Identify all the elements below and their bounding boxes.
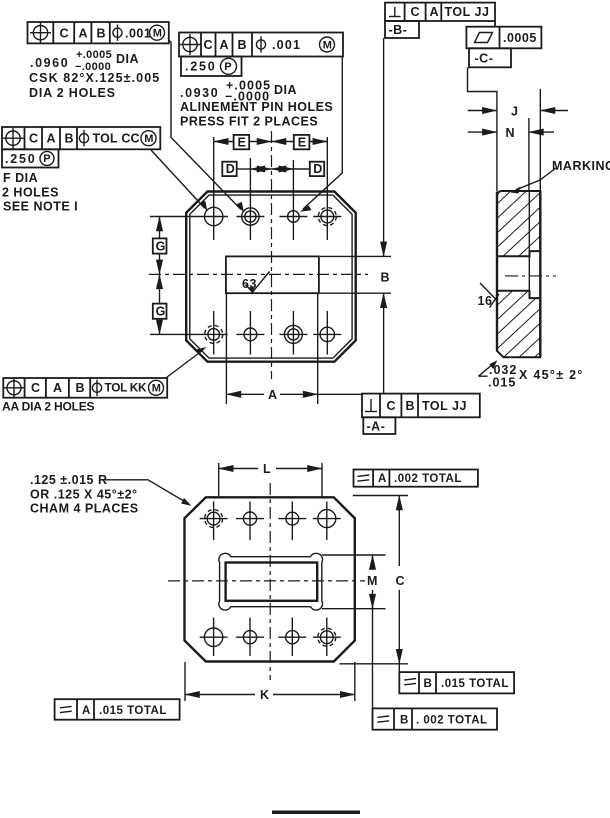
MARKING label and leader — [511, 159, 610, 194]
svg-text:.250: .250 — [185, 60, 217, 74]
svg-text:-B-: -B- — [389, 23, 408, 37]
svg-text:M: M — [367, 574, 378, 588]
svg-text:K: K — [260, 688, 270, 702]
svg-text:A: A — [53, 381, 63, 395]
svg-text:TOL JJ: TOL JJ — [445, 5, 490, 19]
svg-text:M: M — [144, 133, 154, 145]
svg-text:E: E — [238, 135, 247, 149]
view 2 aperture rectangle — [226, 563, 318, 601]
svg-text:.0930: .0930 — [180, 86, 219, 100]
boss face hidden edge through section — [528, 191, 530, 298]
svg-text:A: A — [378, 473, 387, 485]
svg-text:PRESS FIT 2 PLACES: PRESS FIT 2 PLACES — [180, 115, 318, 129]
svg-text:B: B — [97, 27, 107, 41]
svg-text:D: D — [313, 162, 323, 176]
svg-text:A: A — [47, 132, 57, 146]
view 1 hole r2h4 — [320, 327, 334, 341]
view 1 horizontal centerline — [149, 273, 368, 275]
svg-text:L: L — [263, 462, 271, 476]
side section upper hatched block — [497, 191, 540, 256]
parallelism frame B .015 TOTAL — [399, 672, 514, 693]
svg-text:D: D — [226, 162, 236, 176]
view 2 hole r1h1 (dashed pin) — [207, 512, 220, 525]
N dimension — [468, 126, 554, 140]
bottom page mark — [272, 811, 360, 815]
feature control frame FCF3 (F DIA holes) — [2, 127, 160, 168]
svg-text:P: P — [43, 153, 51, 165]
D dimension right — [272, 162, 325, 176]
view 2 hole r1h4 — [318, 510, 336, 528]
view 1 hole column line 2 — [249, 158, 251, 240]
parallelism frame A .015 TOTAL (bottom left) — [55, 699, 180, 720]
M dimension — [322, 555, 386, 708]
svg-text:TOL JJ: TOL JJ — [422, 399, 467, 413]
A dimension — [226, 388, 362, 402]
view 1 hole column line 1 — [213, 137, 215, 240]
svg-text:.0005: .0005 — [503, 31, 537, 45]
view 1 hole r2h3 (csk, double) — [284, 325, 302, 343]
leader from FCF1 to hole r1h2 — [169, 40, 246, 213]
view 2 hole r2h1 — [204, 628, 222, 646]
view 1 row 1 hole crosshair horizontals — [150, 216, 228, 218]
svg-text:.015 TOTAL: .015 TOTAL — [441, 678, 509, 690]
G dimension — [153, 217, 167, 335]
svg-text:A: A — [220, 38, 230, 52]
leader from FCF2 to hole r1h3 — [300, 57, 343, 212]
svg-text:B: B — [400, 715, 409, 727]
svg-text:F DIA: F DIA — [3, 171, 38, 185]
side section lower hatched block — [497, 291, 540, 358]
note: F DIA 2 HOLES SEE NOTE 1 — [2, 171, 78, 214]
svg-text:-A-: -A- — [367, 420, 386, 434]
view 1 flange outer outline — [186, 192, 356, 362]
view 1 hole r1h1 (F dia) — [205, 207, 223, 225]
view 1 hole column line 4 — [326, 137, 328, 240]
svg-text:.015: .015 — [488, 376, 516, 390]
svg-text:X 45°± 2°: X 45°± 2° — [519, 368, 584, 382]
svg-text:.001: .001 — [272, 38, 301, 52]
K dimension — [185, 662, 355, 702]
leader from FCF4 to hole r2h1 — [167, 347, 207, 378]
svg-text:A: A — [82, 705, 91, 717]
svg-text:.015 TOTAL: .015 TOTAL — [99, 705, 167, 717]
N boss face line — [528, 118, 530, 251]
view 2 row 1 hole crosshair horizontals — [200, 518, 228, 520]
svg-text:P: P — [224, 61, 232, 73]
D dimension left — [222, 162, 271, 176]
parallelism frame A .002 TOTAL (top) — [354, 470, 478, 487]
datum B extension line down from -B- — [383, 38, 385, 256]
svg-text:.250: .250 — [5, 152, 37, 166]
svg-text:J: J — [511, 105, 518, 119]
svg-text:AA DIA 2 HOLES: AA DIA 2 HOLES — [2, 400, 95, 414]
view 1 hole r2h1 (aa, dashed) — [208, 329, 220, 341]
svg-text:C: C — [60, 27, 70, 41]
E dimension left — [214, 135, 272, 149]
svg-text:A: A — [268, 388, 278, 402]
svg-text:B: B — [76, 381, 86, 395]
svg-text:.001: .001 — [125, 27, 151, 41]
svg-text:DIA 2 HOLES: DIA 2 HOLES — [29, 86, 116, 100]
svg-text:G: G — [156, 305, 166, 319]
step line from -C- to side view left face — [468, 67, 497, 191]
view 2 hole r1h2 — [243, 512, 256, 525]
view 2 hole r2h3 — [286, 631, 299, 644]
svg-text:CSK 82°X.125±.005: CSK 82°X.125±.005 — [29, 71, 160, 85]
flatness frame .0005 with -C- — [466, 27, 541, 68]
E dimension right — [272, 135, 328, 149]
svg-text:A: A — [430, 5, 440, 19]
surface finish 63 inside aperture — [242, 272, 270, 294]
B extension lines from aperture — [320, 255, 391, 257]
view 2 vertical centerline — [269, 483, 271, 680]
view 2 gasket groove outline — [219, 553, 323, 610]
surface finish 16 — [478, 283, 500, 308]
view 1 hole r2h2 — [244, 328, 257, 341]
view 1 hole r1h4 (aa, dashed) — [321, 210, 334, 223]
note: .0930 alinement pin holes — [180, 79, 333, 129]
svg-text:B: B — [381, 271, 391, 285]
view 2 hole r1h3 — [286, 512, 299, 525]
note: .0960 +.0005/-.0000 DIA CSK 82 deg — [29, 49, 160, 100]
view 1 flange inner outline — [190, 195, 352, 358]
leader from FCF3 to hole r1h1 — [151, 150, 209, 212]
svg-text:.125 ±.015 R: .125 ±.015 R — [30, 473, 108, 487]
top right datum frame: perpendicularity C A TOL JJ — [385, 3, 495, 38]
svg-text:G: G — [156, 239, 166, 253]
view 1 hole r1h3 (alinement pin) — [288, 211, 300, 223]
svg-text:M: M — [323, 39, 333, 51]
view 2 horizontal centerline — [168, 580, 365, 582]
feature control frame FCF2 (alinement pin holes) — [179, 33, 343, 77]
svg-text:B: B — [424, 678, 433, 690]
J dimension — [468, 105, 568, 119]
svg-text:C: C — [387, 399, 397, 413]
svg-text:DIA: DIA — [274, 83, 297, 97]
note: .125 R chamfer 4 places — [30, 473, 192, 516]
side section centerline — [505, 275, 556, 277]
view 2 row 2 hole crosshair horizontals — [200, 636, 228, 638]
svg-text:OR .125 X 45°±2°: OR .125 X 45°±2° — [30, 488, 138, 502]
feature control frame FCF4 (AA holes) — [2, 378, 167, 414]
svg-text:M: M — [153, 28, 163, 40]
connector TOL JJ to flatness frame — [494, 21, 496, 27]
svg-text:C: C — [411, 5, 421, 19]
view 1 hole column line 3 — [292, 160, 294, 240]
svg-text:+.0005: +.0005 — [76, 49, 112, 61]
side view right face extension line — [539, 89, 541, 191]
side view left face line — [496, 192, 498, 351]
svg-text:N: N — [506, 126, 516, 140]
A dimension extension lines from aperture corners — [225, 293, 227, 404]
svg-text:DIA: DIA — [116, 52, 139, 66]
C dimension — [339, 496, 408, 673]
svg-text:TOL KK: TOL KK — [105, 381, 147, 395]
svg-text:.002 TOTAL: .002 TOTAL — [394, 473, 462, 485]
svg-text:. 002 TOTAL: . 002 TOTAL — [416, 715, 488, 727]
svg-text:CHAM 4 PLACES: CHAM 4 PLACES — [30, 502, 139, 516]
svg-text:B: B — [65, 132, 75, 146]
view 1 row 2 hole crosshair horizontals — [150, 333, 228, 335]
svg-text:C: C — [31, 381, 41, 395]
view 1 aperture rectangle — [226, 256, 319, 293]
svg-text:C: C — [204, 38, 214, 52]
svg-text:SEE NOTE I: SEE NOTE I — [3, 200, 78, 214]
svg-text:ALINEMENT PIN HOLES: ALINEMENT PIN HOLES — [180, 100, 333, 114]
svg-text:B: B — [238, 38, 248, 52]
feature control frame FCF1 (CSK holes position) — [28, 22, 169, 43]
view 1 vertical centerline — [271, 131, 273, 379]
svg-text:C: C — [396, 574, 406, 588]
svg-text:C: C — [29, 132, 39, 146]
svg-text:2 HOLES: 2 HOLES — [2, 186, 59, 200]
parallelism frame B .002 TOTAL — [373, 708, 498, 729]
svg-text:M: M — [152, 383, 162, 395]
chamfer callout .032/.015 X 45 — [479, 360, 584, 389]
frame: perpendicularity C B TOL JJ with -A- — [362, 394, 480, 434]
svg-text:MARKING: MARKING — [552, 159, 610, 173]
view 2 hole r2h4 (dashed pin) — [320, 631, 333, 644]
svg-text:B: B — [406, 399, 416, 413]
side view right face line — [539, 191, 541, 357]
svg-text:TOL CC: TOL CC — [93, 132, 140, 146]
L dimension — [219, 462, 322, 497]
svg-text:E: E — [298, 135, 307, 149]
view 2 flange outline — [185, 497, 355, 661]
view 1 hole r1h2 (csk, double) — [242, 208, 259, 225]
svg-text:A: A — [79, 27, 89, 41]
svg-text:-C-: -C- — [475, 52, 494, 66]
svg-text:.0960: .0960 — [30, 56, 69, 70]
view 2 hole r2h2 — [243, 631, 256, 644]
view 2 hole column lines — [213, 502, 215, 541]
